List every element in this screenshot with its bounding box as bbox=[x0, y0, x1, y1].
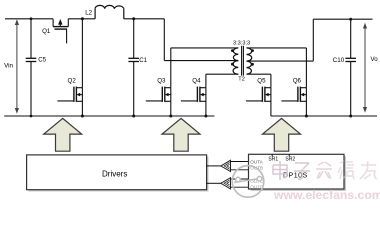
svg-text:Q6: Q6 bbox=[293, 78, 302, 85]
svg-text:T2: T2 bbox=[238, 77, 245, 83]
svg-text:Q3: Q3 bbox=[157, 78, 166, 85]
wire secondary top rail bbox=[247, 47, 307, 49]
transistor Q5 bbox=[246, 87, 271, 116]
wire center tap riser left bbox=[163, 19, 165, 61]
svg-text:Q1: Q1 bbox=[42, 28, 51, 35]
transistor Q6 bbox=[281, 87, 306, 116]
transistor Q4 bbox=[181, 87, 206, 116]
wire primary center tap rail bbox=[164, 60, 238, 62]
wire secondary center tap rail bbox=[247, 60, 314, 62]
capacitor C5 bbox=[30, 19, 32, 116]
svg-text:Q4: Q4 bbox=[192, 78, 201, 85]
wire top input rail bbox=[5, 18, 53, 20]
driver buffer B bbox=[207, 182, 222, 184]
svg-text:SR2: SR2 bbox=[285, 156, 295, 162]
wire secondary bottom rail bbox=[247, 73, 271, 75]
svg-text:OUTA: OUTA bbox=[250, 160, 263, 165]
gate drive block arrow 3 bbox=[263, 118, 301, 151]
transistor Q2 bbox=[57, 87, 82, 116]
transistor Q1 bbox=[53, 19, 68, 44]
svg-text:Q5: Q5 bbox=[257, 78, 266, 85]
wire secondary ground rail bbox=[271, 115, 377, 117]
inductor L2 bbox=[95, 5, 124, 18]
svg-text:C1: C1 bbox=[139, 57, 147, 64]
pin SR2 bbox=[288, 154, 290, 156]
node ground junction secondary bbox=[305, 115, 308, 118]
transistor Q3 bbox=[146, 87, 171, 116]
capacitor C10 bbox=[350, 19, 352, 116]
svg-text:Vin: Vin bbox=[4, 62, 13, 69]
wire primary bottom rail bbox=[206, 73, 238, 75]
transformer T2 bbox=[233, 46, 252, 76]
T2 polarity dots bbox=[231, 49, 234, 52]
svg-text:SR1: SR1 bbox=[268, 156, 278, 162]
watermark logo circle (decorative) bbox=[232, 166, 264, 198]
svg-text:Q2: Q2 bbox=[68, 78, 77, 85]
wire buck output rail bbox=[124, 18, 165, 20]
svg-text:Drivers: Drivers bbox=[102, 169, 127, 178]
svg-text:L2: L2 bbox=[85, 9, 92, 16]
wire output top rail bbox=[313, 18, 372, 20]
wire output riser bbox=[312, 19, 314, 61]
wire primary top rail bbox=[171, 47, 239, 49]
svg-text:C5: C5 bbox=[38, 57, 46, 64]
gate drive block arrow 1 bbox=[44, 118, 82, 151]
node C1 junction bbox=[132, 17, 135, 20]
Vo output arrow bbox=[363, 23, 367, 113]
driver buffer A bbox=[207, 165, 222, 167]
controller IC DP10S bbox=[251, 156, 347, 191]
gate drive block arrow 2 bbox=[162, 118, 200, 151]
node switch junction bbox=[81, 17, 84, 20]
svg-text:www.elecfans.com: www.elecfans.com bbox=[273, 188, 380, 202]
Drivers block bbox=[29, 157, 209, 192]
wire primary ground rail bbox=[4, 115, 214, 117]
svg-text:3:3:3:3: 3:3:3:3 bbox=[233, 41, 250, 47]
Vin source arrow bbox=[15, 19, 19, 113]
watermark row1 (decorative) bbox=[273, 161, 377, 180]
capacitor C1 bbox=[133, 19, 135, 116]
svg-text:Vo: Vo bbox=[371, 56, 379, 63]
wire switch node rail bbox=[68, 18, 95, 20]
svg-text:C10: C10 bbox=[333, 57, 345, 64]
pin SR1 bbox=[271, 154, 273, 156]
node ground junctions primary bbox=[81, 115, 84, 118]
